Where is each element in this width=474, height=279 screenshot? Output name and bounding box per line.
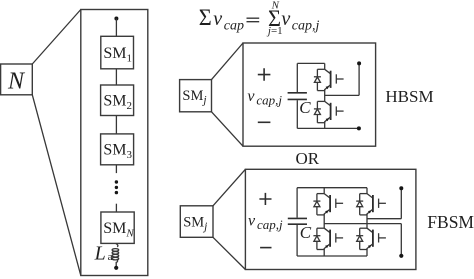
transistor T3 (upper-right IGBT+diode) <box>356 194 386 215</box>
left leg vertical wires <box>323 188 325 256</box>
svg-text:SM3: SM3 <box>103 142 132 162</box>
wire SM1-SM2 <box>115 69 117 85</box>
svg-text:SM1: SM1 <box>103 45 132 65</box>
right leg vertical wires <box>366 188 368 256</box>
transistor T1 (upper IGBT+diode) <box>314 69 344 90</box>
svg-text:cap,j: cap,j <box>292 18 320 33</box>
expansion line bottom <box>213 237 245 269</box>
wire below SM3 <box>115 165 117 173</box>
bottom rail wire <box>297 127 359 129</box>
svg-text:cap: cap <box>224 18 244 33</box>
svg-text:SMj: SMj <box>183 214 207 232</box>
svg-text:a: a <box>108 251 113 263</box>
midpoint tap wire <box>325 63 359 95</box>
svg-text:SMN: SMN <box>103 220 134 240</box>
output terminal dot top <box>357 61 361 65</box>
svg-text:v: v <box>248 213 256 230</box>
node top terminal dot <box>114 17 118 21</box>
svg-text:FBSM: FBSM <box>427 212 474 232</box>
plus sign <box>258 68 271 81</box>
expansion line top <box>212 43 244 80</box>
svg-text:N: N <box>7 68 26 94</box>
wire right-leg midpoint to top terminal <box>367 188 401 218</box>
svg-text:v: v <box>247 88 255 105</box>
svg-text:SMj: SMj <box>182 88 206 106</box>
HBSM outer box <box>243 43 376 146</box>
svg-text:j=1: j=1 <box>266 25 283 37</box>
svg-text:C: C <box>299 98 311 117</box>
transistor T4 (lower-right IGBT+diode) <box>356 228 386 249</box>
svg-text:Σ: Σ <box>199 5 212 30</box>
box SMj (FBSM) <box>180 206 213 238</box>
minus sign <box>260 247 271 249</box>
output terminal dot top <box>399 186 403 190</box>
box N <box>1 64 33 95</box>
svg-text:cap,j: cap,j <box>257 217 283 232</box>
submodule SMN box <box>101 212 134 243</box>
bottom rail wire <box>297 255 367 257</box>
output terminal dot bottom <box>357 126 361 130</box>
svg-text:v: v <box>213 8 222 30</box>
transistor T1 (upper-left IGBT+diode) <box>313 194 343 215</box>
transistor T2 (lower IGBT+diode) <box>314 101 344 122</box>
transistor T2 (lower-left IGBT+diode) <box>313 228 343 249</box>
submodule SM3 box <box>101 134 134 165</box>
capacitor C (HBSM) <box>296 63 298 92</box>
FBSM outer box <box>245 169 416 269</box>
expansion line bottom <box>212 112 244 146</box>
wire left-leg midpoint to bottom terminal <box>324 224 401 256</box>
minus sign <box>258 121 271 123</box>
output terminal dot bottom <box>399 254 403 258</box>
svg-text:OR: OR <box>296 149 320 168</box>
submodule SM2 box <box>101 85 134 116</box>
wire above SMN <box>115 204 117 212</box>
inductor bottom terminal dot <box>114 266 118 270</box>
arm outer box <box>81 10 148 276</box>
submodule SM1 box <box>101 36 134 69</box>
inductor La coil <box>116 243 118 247</box>
top rail wire <box>297 62 324 64</box>
svg-text:v: v <box>281 8 290 30</box>
expansion line bottom (N box to arm box) <box>32 95 81 276</box>
expansion line top <box>213 169 245 206</box>
expansion line top (N box to arm box) <box>32 10 81 65</box>
wire top dot to SM1 <box>115 19 117 37</box>
svg-text:HBSM: HBSM <box>385 87 433 106</box>
ellipsis dots <box>115 180 118 183</box>
top rail wire <box>297 187 367 189</box>
capacitor C (FBSM) <box>296 188 298 218</box>
left leg vertical wires <box>324 63 326 128</box>
svg-text:L: L <box>94 243 106 265</box>
svg-text:cap,j: cap,j <box>256 92 282 107</box>
svg-text:SM2: SM2 <box>103 92 132 112</box>
svg-text:C: C <box>300 223 312 242</box>
box SMj (HBSM) <box>180 80 212 112</box>
wire SM2-SM3 <box>115 116 117 134</box>
plus sign <box>259 193 271 205</box>
